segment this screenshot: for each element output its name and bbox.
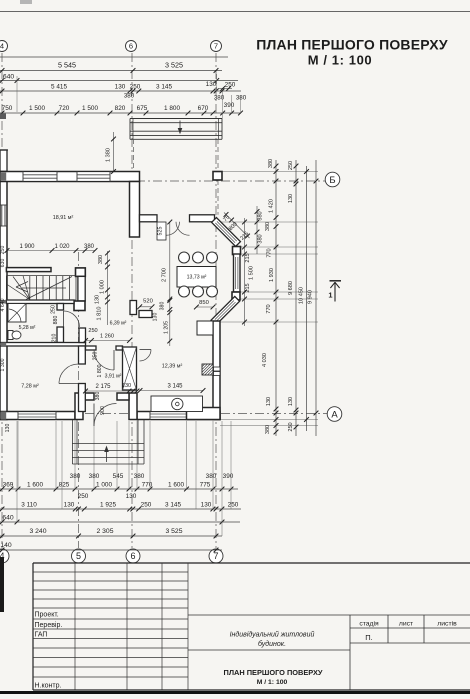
- svg-text:380: 380: [258, 211, 264, 220]
- svg-text:525: 525: [158, 227, 164, 236]
- svg-text:380: 380: [95, 392, 101, 401]
- wall stub 520: [139, 311, 152, 318]
- svg-text:7,28 м²: 7,28 м²: [21, 384, 39, 390]
- svg-text:215: 215: [245, 283, 251, 292]
- extension lines right: [222, 171, 318, 173]
- svg-text:380: 380: [206, 473, 217, 480]
- dim line 3240 row: [0, 535, 222, 537]
- bay diagonal dim 75/800/215: [224, 213, 250, 239]
- stair pier bottom: [74, 301, 85, 311]
- shower cabin: [8, 304, 26, 323]
- svg-text:3 145: 3 145: [156, 84, 172, 91]
- svg-text:390: 390: [223, 473, 234, 480]
- svg-text:130: 130: [5, 424, 11, 433]
- dim 250/1260: [86, 340, 130, 342]
- svg-text:Н.контр.: Н.контр.: [35, 683, 62, 690]
- svg-text:10 450: 10 450: [299, 287, 305, 304]
- svg-text:770: 770: [267, 248, 273, 257]
- grid axis 5 (vertical): [78, 252, 80, 548]
- dining chairs: [179, 252, 190, 263]
- svg-text:770: 770: [266, 304, 272, 313]
- svg-text:675: 675: [137, 105, 148, 112]
- cropped mark top left: [20, 0, 32, 4]
- door hall east: [140, 349, 152, 351]
- chain x169: [169, 222, 171, 346]
- bay east wall window: [234, 254, 241, 292]
- svg-text:130: 130: [266, 397, 272, 406]
- dim line 5545/3525: [0, 70, 222, 72]
- living dim 1900/1020/380: [7, 250, 95, 252]
- svg-text:1 020: 1 020: [54, 244, 70, 250]
- wall W1 middle: [79, 346, 86, 364]
- left wall junction bath top: [1, 300, 6, 304]
- svg-text:5 415: 5 415: [51, 84, 67, 91]
- svg-text:стадія: стадія: [359, 620, 379, 628]
- bath bottom wall: [0, 343, 86, 347]
- grid bubble 4 bottom: [0, 549, 9, 563]
- entrance porch steps: [71, 420, 73, 464]
- chain 9940: [315, 160, 317, 436]
- svg-text:380: 380: [214, 95, 225, 102]
- svg-text:380: 380: [84, 244, 95, 250]
- svg-text:12,39 м²: 12,39 м²: [162, 364, 183, 370]
- svg-text:130: 130: [115, 84, 126, 91]
- left wall junction bath bottom: [1, 343, 6, 347]
- svg-text:900: 900: [100, 406, 106, 415]
- svg-text:1 600: 1 600: [27, 482, 43, 489]
- svg-text:130: 130: [288, 194, 294, 203]
- svg-text:ПЛАН ПЕРШОГО ПОВЕРХУ: ПЛАН ПЕРШОГО ПОВЕРХУ: [256, 37, 448, 53]
- staircase treads: [6, 275, 76, 277]
- french doors dining: [166, 222, 180, 236]
- left wall stub top: [0, 150, 7, 172]
- dining north wall left: [140, 215, 158, 222]
- svg-text:3 525: 3 525: [165, 61, 183, 70]
- svg-text:1 925: 1 925: [100, 502, 116, 509]
- porch arrow up: [106, 449, 108, 462]
- svg-text:1 930: 1 930: [269, 268, 275, 282]
- svg-text:1 420: 1 420: [269, 199, 275, 213]
- svg-text:Проект.: Проект.: [35, 612, 59, 619]
- svg-text:3 145: 3 145: [167, 384, 183, 390]
- svg-text:545: 545: [113, 473, 124, 480]
- wall fragment left edge: [0, 114, 6, 120]
- svg-text:630: 630: [0, 259, 6, 268]
- bath door: [63, 311, 65, 327]
- title block table: [33, 562, 470, 564]
- svg-text:130: 130: [153, 313, 159, 322]
- stair side wall: [78, 276, 85, 301]
- grid axis B (horizontal): [0, 180, 326, 182]
- dim 850: [196, 306, 213, 308]
- svg-text:770: 770: [142, 482, 153, 489]
- svg-text:1 300: 1 300: [0, 358, 6, 371]
- svg-text:1 500: 1 500: [249, 266, 255, 280]
- svg-text:250: 250: [225, 82, 236, 89]
- door room 7.28: [59, 383, 79, 385]
- grid bubble 7 bottom: [209, 549, 223, 563]
- wardrobe box: [123, 347, 137, 390]
- grid axis 4 (vertical): [1, 53, 3, 548]
- south wall west part: [0, 412, 75, 420]
- svg-text:6,39 м²: 6,39 м²: [110, 321, 127, 327]
- bay upper diagonal wall: [212, 218, 241, 247]
- svg-text:2 305: 2 305: [96, 528, 113, 535]
- svg-text:1 500: 1 500: [82, 105, 98, 112]
- svg-text:1 000: 1 000: [96, 482, 112, 489]
- entry door: [93, 404, 95, 427]
- svg-text:820: 820: [115, 105, 126, 112]
- svg-text:1 600: 1 600: [168, 482, 184, 489]
- svg-text:Перевір.: Перевір.: [35, 621, 63, 629]
- dining north wall right: [190, 215, 215, 222]
- extension lines bottom: [16, 421, 18, 522]
- svg-text:130: 130: [122, 383, 131, 389]
- svg-text:825: 825: [59, 482, 70, 489]
- frame bar left: [0, 557, 4, 612]
- svg-text:250: 250: [0, 246, 6, 255]
- svg-text:1 810: 1 810: [97, 307, 103, 321]
- svg-text:4 030: 4 030: [262, 353, 268, 367]
- svg-text:250: 250: [228, 502, 239, 509]
- svg-text:3 145: 3 145: [165, 502, 181, 509]
- window W1 north: [23, 172, 57, 181]
- svg-text:250: 250: [88, 328, 97, 334]
- dim line 640 bottom: [0, 521, 240, 523]
- bath right wall: [57, 304, 64, 311]
- left wall junction south: [1, 412, 6, 420]
- svg-text:7: 7: [213, 551, 218, 561]
- svg-text:9 940: 9 940: [308, 290, 314, 304]
- bay corner pier top: [233, 247, 241, 255]
- svg-text:670: 670: [198, 105, 209, 112]
- svg-text:380: 380: [268, 159, 274, 168]
- dim line 640: [0, 80, 238, 82]
- grid axis 6 (vertical): [131, 53, 133, 548]
- svg-text:5 545: 5 545: [58, 61, 76, 70]
- toilet: [8, 331, 13, 340]
- dining table: [177, 267, 216, 288]
- svg-text:листів: листів: [437, 620, 457, 628]
- left exterior wall: [0, 172, 7, 420]
- grid axis 7 (vertical): [215, 53, 217, 548]
- svg-text:140: 140: [0, 542, 12, 549]
- svg-text:3 110: 3 110: [21, 502, 37, 509]
- grid bubble A right: [327, 407, 342, 422]
- wall nubs east: [214, 367, 221, 371]
- svg-text:215: 215: [245, 253, 251, 262]
- svg-text:5: 5: [76, 551, 81, 561]
- dim 1380 vertical: [113, 132, 115, 172]
- svg-text:850: 850: [199, 300, 209, 306]
- svg-text:775: 775: [200, 482, 211, 489]
- left wall junction north: [1, 173, 6, 181]
- wall living/dining: [130, 182, 140, 238]
- svg-text:250: 250: [130, 84, 141, 91]
- svg-text:Індивідуальний житловий: Індивідуальний житловий: [230, 631, 315, 639]
- svg-text:ПЛАН ПЕРШОГО ПОВЕРХУ: ПЛАН ПЕРШОГО ПОВЕРХУ: [224, 668, 323, 677]
- svg-text:380: 380: [265, 222, 271, 231]
- svg-text:250: 250: [93, 352, 99, 361]
- kitchen east wall: [213, 321, 220, 420]
- wall W1 lower: [79, 384, 86, 412]
- section mark 1: [330, 280, 342, 282]
- grid bubble 6 bottom: [126, 549, 140, 563]
- svg-text:380: 380: [134, 473, 145, 480]
- main right chain: [275, 160, 277, 436]
- grid bubble B right: [325, 172, 340, 187]
- svg-text:130: 130: [206, 81, 217, 88]
- window room 7.28: [18, 412, 56, 419]
- svg-text:250: 250: [288, 422, 294, 431]
- door label 525 box: [157, 222, 166, 240]
- svg-text:1 205: 1 205: [164, 321, 170, 334]
- svg-text:380: 380: [124, 93, 135, 100]
- svg-text:1 800: 1 800: [164, 105, 180, 112]
- vestibule west wall: [75, 393, 83, 420]
- svg-text:1 500: 1 500: [29, 105, 45, 112]
- svg-text:1 900: 1 900: [19, 244, 35, 250]
- south-east corner block: [187, 408, 221, 420]
- svg-text:250: 250: [288, 161, 294, 170]
- svg-text:6: 6: [129, 42, 133, 51]
- svg-text:3 525: 3 525: [165, 528, 182, 535]
- svg-text:130: 130: [95, 295, 101, 304]
- grid bubble 5 bottom: [72, 549, 86, 563]
- south wall east part: [137, 412, 220, 420]
- window kitchen south: [150, 412, 187, 419]
- svg-text:380: 380: [98, 255, 104, 264]
- north wall band: [0, 172, 140, 182]
- terrace step arrow: [179, 121, 181, 131]
- svg-text:7: 7: [214, 42, 218, 51]
- grid bubble 4 top: [0, 41, 8, 52]
- svg-text:М / 1: 100: М / 1: 100: [257, 679, 288, 686]
- sheet frame top line: [0, 11, 470, 13]
- chain 380/380: [256, 206, 258, 254]
- room 3.91 top wall: [86, 346, 97, 350]
- dim line 750 row: [0, 112, 241, 114]
- chain 10450: [306, 166, 308, 431]
- svg-text:4 640: 4 640: [0, 298, 6, 311]
- dim line 3110 row: [0, 508, 241, 510]
- kitchen counter: [151, 396, 203, 412]
- vestibule east wall: [129, 393, 137, 420]
- north-east pier: [213, 172, 222, 181]
- left wall window living: [1, 205, 3, 226]
- svg-text:1 800: 1 800: [97, 364, 103, 377]
- svg-text:640: 640: [3, 74, 15, 81]
- dim 2175/130: [86, 390, 138, 392]
- svg-text:ГАП: ГАП: [35, 632, 48, 639]
- svg-text:250: 250: [78, 493, 89, 500]
- svg-text:720: 720: [59, 105, 70, 112]
- wall at axis6: [130, 301, 137, 315]
- grid bubble 7 top: [211, 41, 222, 52]
- dim 3145 kitchen: [140, 390, 203, 392]
- svg-text:будинок.: будинок.: [258, 640, 286, 648]
- svg-text:380: 380: [258, 234, 264, 243]
- svg-text:250: 250: [51, 305, 57, 314]
- svg-text:6: 6: [130, 551, 135, 561]
- svg-text:130: 130: [201, 502, 212, 509]
- svg-text:640: 640: [2, 515, 14, 522]
- svg-text:2 700: 2 700: [162, 268, 168, 282]
- svg-text:5,28 м²: 5,28 м²: [19, 325, 36, 331]
- svg-text:18,91 м²: 18,91 м²: [53, 215, 74, 221]
- svg-text:390: 390: [224, 102, 235, 109]
- svg-text:130: 130: [288, 397, 294, 406]
- top auxiliary line: [0, 56, 228, 58]
- bath top wall: [6, 300, 74, 304]
- dim 520: [140, 306, 152, 308]
- dim line 140 bottom: [0, 549, 222, 551]
- svg-text:880: 880: [53, 316, 59, 325]
- terrace steps: [130, 118, 222, 120]
- bay corner pier bottom: [232, 292, 240, 300]
- svg-text:250: 250: [141, 502, 152, 509]
- door room 3.91: [113, 350, 115, 370]
- stair top wall: [6, 268, 51, 272]
- dim line 369 row: [0, 488, 238, 490]
- svg-text:лист: лист: [399, 621, 413, 628]
- svg-text:210: 210: [52, 334, 58, 343]
- chain 9680: [295, 160, 297, 436]
- svg-text:1 000: 1 000: [100, 280, 106, 294]
- svg-text:1: 1: [328, 291, 332, 300]
- bottom thick border: [0, 691, 470, 694]
- terrace dashed outline: [133, 139, 135, 172]
- svg-text:1 260: 1 260: [100, 334, 114, 340]
- dim 250 right top: [218, 88, 232, 90]
- vestibule north wall pieces: [83, 393, 94, 400]
- svg-text:2 175: 2 175: [95, 384, 111, 390]
- window W2 north: [77, 172, 110, 181]
- svg-text:П.: П.: [365, 633, 372, 642]
- svg-text:13,73 м²: 13,73 м²: [187, 275, 207, 281]
- bay lower diagonal wall: [211, 296, 239, 324]
- stair pier top: [76, 268, 86, 277]
- svg-text:М / 1: 100: М / 1: 100: [308, 53, 373, 68]
- svg-text:380: 380: [160, 302, 166, 311]
- svg-text:130: 130: [64, 502, 75, 509]
- svg-text:А: А: [331, 409, 338, 420]
- svg-text:380: 380: [236, 95, 247, 102]
- svg-text:520: 520: [143, 299, 153, 305]
- svg-text:369: 369: [3, 482, 14, 489]
- svg-text:3,91 м²: 3,91 м²: [105, 374, 122, 380]
- svg-text:1 380: 1 380: [106, 148, 112, 162]
- svg-text:380: 380: [265, 425, 271, 434]
- svg-text:750: 750: [2, 105, 13, 112]
- svg-text:9 680: 9 680: [288, 281, 294, 295]
- extension lines top right: [222, 92, 224, 119]
- wall stub mid: [79, 328, 86, 343]
- kitchen cabinet: [197, 321, 213, 335]
- grid axis A (horizontal): [0, 413, 327, 415]
- dim line 5415 row: [0, 90, 241, 92]
- bay vertical chain 215/1500/215: [244, 218, 246, 326]
- svg-text:3 240: 3 240: [29, 528, 46, 535]
- svg-text:130: 130: [126, 493, 137, 500]
- vent shaft hatched: [202, 364, 213, 375]
- svg-text:Б: Б: [329, 175, 335, 186]
- chain x107: [107, 251, 109, 325]
- svg-text:4: 4: [0, 42, 4, 51]
- grid bubble 6 top: [126, 41, 137, 52]
